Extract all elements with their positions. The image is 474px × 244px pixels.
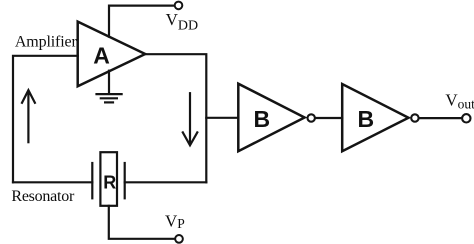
inversion bubble of B2 bbox=[411, 114, 418, 121]
wire: VP bias from resonator bottom bbox=[109, 206, 176, 239]
svg-text:A: A bbox=[93, 42, 110, 68]
svg-text:Amplifier: Amplifier bbox=[15, 33, 78, 50]
resonator left electrode plate bbox=[91, 163, 93, 198]
wire: bottom rail left segment to resonator bbox=[13, 181, 92, 183]
inversion bubble of B1 bbox=[308, 114, 315, 121]
resonator R (crystal symbol: box between plates) bbox=[92, 152, 124, 206]
amplifier A1 (triangle) bbox=[78, 22, 146, 87]
resonator right electrode plate bbox=[124, 163, 126, 198]
wire: bottom rail right segment from resonator bbox=[125, 181, 207, 183]
svg-text:Vout: Vout bbox=[445, 90, 474, 111]
svg-text:B: B bbox=[357, 106, 374, 132]
buffer B1 (inverting triangle) bbox=[238, 84, 304, 152]
svg-text:VDD: VDD bbox=[166, 10, 199, 34]
wire: feedback loop left side (amp input to left rail) bbox=[13, 56, 78, 183]
resonator body box bbox=[100, 152, 117, 206]
arrow: downward signal-flow arrow on right rail bbox=[183, 93, 198, 145]
arrow: upward signal-flow arrow on left rail bbox=[22, 90, 35, 142]
wire: amplifier output to right rail down to bottom rail bbox=[145, 54, 206, 182]
svg-text:VP: VP bbox=[165, 212, 185, 231]
ground (below amplifier) bbox=[97, 71, 122, 103]
terminal VDD (open circle) bbox=[175, 2, 183, 10]
wire: right rail tap to buffer B1 input bbox=[206, 117, 238, 119]
wire: B1 output to B2 input bbox=[316, 117, 342, 119]
wire: B2 output to Vout terminal bbox=[420, 117, 462, 119]
svg-text:B: B bbox=[253, 106, 270, 132]
svg-text:Resonator: Resonator bbox=[11, 188, 75, 205]
terminal Vout (open circle) bbox=[462, 114, 470, 122]
wire: VDD supply stem from amplifier top bbox=[109, 6, 175, 37]
svg-text:R: R bbox=[103, 173, 116, 193]
terminal VP (open circle) bbox=[175, 235, 183, 243]
buffer B2 (inverting triangle) bbox=[342, 84, 408, 151]
